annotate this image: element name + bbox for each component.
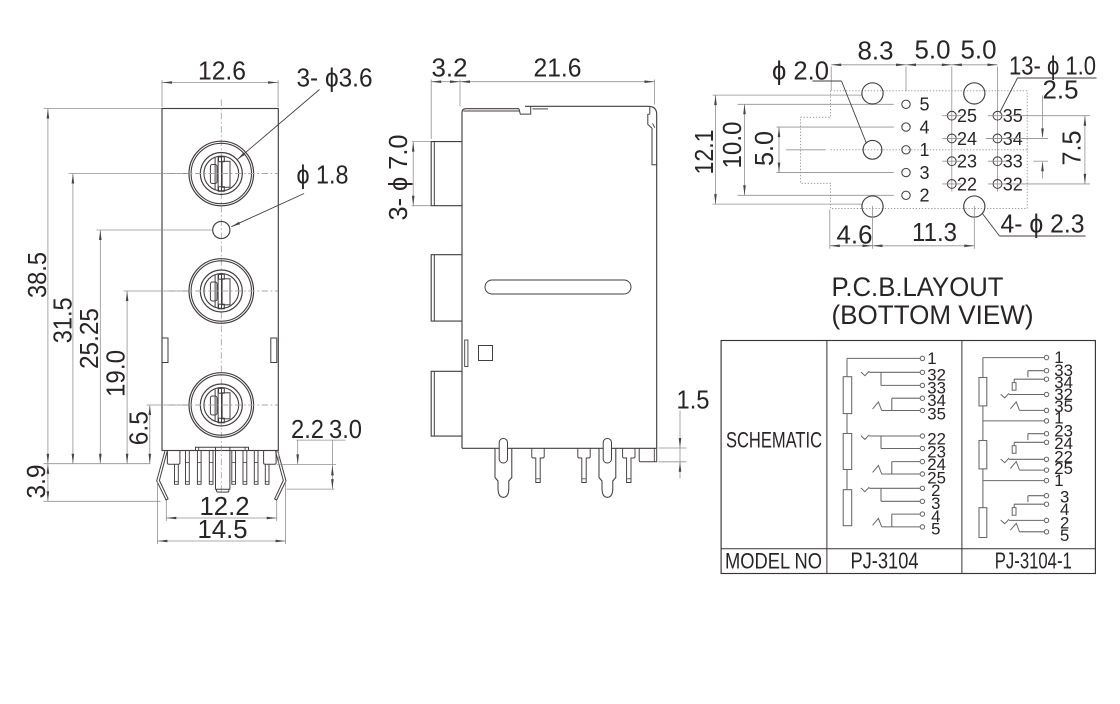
svg-text:25: 25 <box>957 106 977 126</box>
schematic1 terminal 5 <box>920 525 924 529</box>
schematic1 wire contact a <box>869 435 920 437</box>
jack inner circle <box>204 388 239 423</box>
schematic2 terminal 4 <box>1044 502 1048 506</box>
schematic1 connector a-b <box>880 372 882 385</box>
side bushing 1 (phi 7.0) <box>431 142 461 206</box>
schematic1 terminal 3 <box>920 499 924 503</box>
jack contact center bar <box>218 275 221 309</box>
svg-text:11.3: 11.3 <box>912 217 957 247</box>
schematic1 wire contact c <box>892 461 920 463</box>
jack contact top notch <box>219 274 225 279</box>
schematic1 connector c-d <box>891 462 893 474</box>
corner hole bottom-left (phi 2.3) <box>862 196 883 217</box>
schematic1 terminal 2 <box>920 486 924 490</box>
front right end block pin <box>264 451 277 465</box>
jack inner circle <box>204 274 239 309</box>
schematic2 terminal 23 <box>1044 432 1048 436</box>
svg-text:PJ-3104: PJ-3104 <box>851 548 919 574</box>
dimension 3-phi7.0 side <box>412 141 431 143</box>
dimension 12.2 bottom <box>165 501 167 522</box>
schematic2 make contact (caret) <box>1010 523 1019 531</box>
pcb row 1 center line <box>786 149 826 151</box>
schematic2 connector b to insulator <box>1013 442 1015 445</box>
dimension 1.5 side bottom <box>659 447 687 449</box>
svg-text:PJ-3104-1: PJ-3104-1 <box>995 548 1072 574</box>
svg-text:38.5: 38.5 <box>22 252 52 298</box>
schematic1 resistor body 1 <box>843 377 852 414</box>
schematic2 hanging contact a <box>1027 496 1029 502</box>
schematic2 hanging contact a <box>1027 371 1029 377</box>
svg-text:14.5: 14.5 <box>198 514 248 544</box>
jack contact center bar <box>218 389 221 423</box>
side wide leg 2 <box>599 448 616 497</box>
front right mounting leg <box>275 451 286 500</box>
schematic2 terminal 5 <box>1044 530 1048 534</box>
jack contact top notch <box>219 388 225 393</box>
jack contact right plate <box>222 161 230 187</box>
schematic1 connector c-d <box>891 398 893 410</box>
schematic1 bus wire mid2 <box>846 470 848 490</box>
pad 22 circle with cross <box>947 180 956 189</box>
dimension 11.3 pcb bottom <box>973 206 975 249</box>
dimension 2.2 right bottom <box>297 439 346 441</box>
pad 4 circle <box>902 123 910 131</box>
svg-text:1.5: 1.5 <box>677 385 710 415</box>
svg-text:13- ϕ 1.0: 13- ϕ 1.0 <box>1009 51 1096 81</box>
schematic1 wire contact c <box>892 397 920 399</box>
schematic1 wire contact d <box>882 473 921 475</box>
svg-text:6.5: 6.5 <box>124 411 154 445</box>
pad 32 circle with cross <box>993 180 1002 189</box>
jack contact top notch <box>219 157 225 162</box>
schematic2 wire terminal 1 bottom <box>983 480 1044 482</box>
jack contact left line <box>214 389 216 421</box>
front thin pin 2 <box>197 451 201 485</box>
side view small square hole <box>479 346 493 361</box>
pcb bottom edge extension line <box>713 203 862 205</box>
front view vertical centerline <box>220 100 222 495</box>
schematic1 resistor body 2 <box>843 434 852 470</box>
schematic1 terminal 25 <box>920 472 924 476</box>
schematic2 insulator <box>1012 446 1016 454</box>
jack contact left strip <box>210 396 217 415</box>
schematic1 wire contact d <box>882 410 921 412</box>
side view right fold hook <box>648 107 657 165</box>
pad 2 circle <box>902 191 910 199</box>
schematic1 wire contact b <box>881 448 920 450</box>
schematic2 make contact (caret) <box>1010 462 1019 470</box>
svg-text:23: 23 <box>957 152 977 172</box>
svg-text:33: 33 <box>1003 152 1023 172</box>
schematic2 terminal 35 <box>1044 408 1048 412</box>
pad 33 circle with cross <box>993 157 1002 166</box>
schematic1 terminal 32 <box>920 370 924 374</box>
jack ring circle <box>200 153 242 195</box>
front thin pin 5 <box>243 451 247 485</box>
svg-text:4.6: 4.6 <box>837 219 873 249</box>
schematic1 break contact (check) <box>861 371 869 376</box>
side thin pin A <box>532 448 544 482</box>
svg-text:5: 5 <box>931 520 940 539</box>
svg-text:5.0: 5.0 <box>915 35 951 65</box>
pcb row 3 extension line <box>777 172 894 174</box>
schematic1 connector a-b <box>880 488 882 501</box>
schematic2 resistor body 2 <box>979 441 987 469</box>
schematic2 wire contact b <box>1014 441 1044 443</box>
schematic2 hanging contact a <box>1027 434 1029 440</box>
dimension 2.5 pcb right <box>1042 96 1044 137</box>
side view main top edge <box>525 106 657 448</box>
pcb row 4 extension line <box>777 126 894 128</box>
pad 24 circle with cross <box>947 134 956 143</box>
side thin pin C <box>623 448 635 482</box>
schematic2 terminal 1 <box>1044 355 1048 359</box>
schematic2 terminal 34 <box>1044 377 1048 381</box>
pad 3 circle <box>902 168 910 176</box>
schematic1 wire contact d <box>882 526 921 528</box>
dimension 25.25 left <box>97 229 213 231</box>
svg-text:5.0: 5.0 <box>961 35 997 65</box>
jack contact left strip <box>210 165 217 184</box>
front right edge extension line <box>278 452 280 465</box>
schematic1 break contact (check) <box>861 435 869 440</box>
side bushing 3 <box>431 371 461 436</box>
svg-text:4: 4 <box>920 117 930 137</box>
dimension 12.1 pcb left <box>715 95 717 204</box>
schematic1 terminal 34 <box>920 396 924 400</box>
schematic1 terminal 33 <box>920 383 924 387</box>
jack outer circle <box>189 141 254 206</box>
svg-text:P.C.B.LAYOUT: P.C.B.LAYOUT <box>832 272 1004 302</box>
jack contact left line <box>214 158 216 190</box>
pad 25 circle with cross <box>947 111 956 120</box>
dimension 31.5 left <box>69 173 189 175</box>
svg-text:3.9: 3.9 <box>21 465 51 499</box>
svg-text:4- ϕ 2.3: 4- ϕ 2.3 <box>1001 209 1085 239</box>
jack contact bottom notch <box>219 187 225 192</box>
schematic1 terminal 23 <box>920 446 924 450</box>
schematic1 terminal 22 <box>920 434 924 438</box>
dimension 38.5 left <box>44 108 162 110</box>
front thin pin 6 <box>254 451 258 485</box>
schematic2 bus wire top <box>982 358 984 378</box>
svg-text:3- ϕ3.6: 3- ϕ3.6 <box>297 63 373 93</box>
schematic2 wire terminal 1 mid <box>983 420 1044 422</box>
schematic2 wire contact b <box>1014 378 1044 380</box>
side view left edge slot <box>465 340 468 367</box>
schematic2 break contact (check) <box>1001 393 1009 398</box>
front bottom plate inner ticks <box>198 447 200 450</box>
jack inner circle <box>204 156 239 191</box>
schematic1 wire contact a <box>869 371 920 373</box>
schematic2 terminal 32 <box>1044 392 1048 396</box>
table row divider <box>721 548 1095 550</box>
pcb top edge extension line <box>713 94 862 96</box>
schematic1 wire terminal 1 <box>847 357 920 359</box>
svg-text:3: 3 <box>920 163 930 183</box>
side thin pin B <box>578 448 590 482</box>
front thin pin 4 <box>232 451 236 485</box>
schematic2 resistor body 1 <box>979 378 987 406</box>
side view top lip right segment <box>533 108 549 110</box>
svg-text:31.5: 31.5 <box>47 297 77 343</box>
jack contact right plate <box>222 279 230 305</box>
front left end block pin <box>167 451 180 465</box>
pcb row 5 extension line <box>738 103 894 105</box>
schematic2 resistor body 3 <box>979 508 987 538</box>
jack shell circle <box>191 261 251 321</box>
dimension 12.6 top width <box>161 80 163 107</box>
schematic2 wire contact a <box>1028 433 1044 435</box>
jack contact left line <box>214 275 216 307</box>
jack contact center bar <box>218 157 221 191</box>
pad 1 circle <box>902 146 910 154</box>
dimension 19.0 left <box>124 290 189 292</box>
dimension 21.6 side top <box>654 80 656 105</box>
svg-text:19.0: 19.0 <box>101 350 131 397</box>
schematic1 connector c-d <box>891 514 893 527</box>
svg-text:24: 24 <box>957 129 977 149</box>
front center pin <box>216 447 230 489</box>
pcb dotted center row line <box>831 149 1028 151</box>
schematic2 terminal 2 <box>1044 518 1048 522</box>
schematic2 break contact (check) <box>1001 458 1009 463</box>
side view right fold notch <box>653 123 655 127</box>
svg-text:2.2: 2.2 <box>291 414 324 444</box>
front bottom plate <box>196 447 249 450</box>
LED hole circle (phi 1.8) <box>213 221 230 238</box>
schematic2 insulator <box>1012 508 1016 516</box>
table outer border <box>721 341 1095 574</box>
jack horizontal centerline <box>169 404 279 406</box>
jack contact bottom notch <box>219 304 225 309</box>
dimension 4.6 pcb bottom <box>829 210 831 249</box>
dimension 6.5 left <box>147 404 189 406</box>
jack outer circle <box>189 259 254 324</box>
svg-text:21.6: 21.6 <box>534 53 582 83</box>
svg-text:5: 5 <box>920 95 930 115</box>
schematic2 break contact (check) <box>1001 519 1009 524</box>
svg-text:7.5: 7.5 <box>1057 131 1087 166</box>
front thin pin 3 <box>209 451 213 485</box>
schematic1 connector a-b <box>880 436 882 449</box>
jack ring circle <box>200 270 242 312</box>
pad 35 circle with cross <box>993 111 1002 120</box>
schematic2 wire contact b <box>1014 503 1044 505</box>
schematic2 make contact (caret) <box>1010 402 1019 410</box>
schematic2 wire contact d <box>1020 531 1045 533</box>
jack shell circle <box>191 143 251 203</box>
schematic1 wire contact c <box>892 513 920 515</box>
jack horizontal centerline <box>169 290 279 292</box>
dimension 5.0 pcb left <box>778 127 780 173</box>
svg-text:10.0: 10.0 <box>717 122 747 169</box>
dimension 8.3 pcb top <box>830 67 832 91</box>
schematic2 bus wire mid2 <box>982 469 984 508</box>
schematic2 wire contact a <box>1028 495 1044 497</box>
schematic1 terminal 4 <box>920 512 924 516</box>
jack shell circle <box>191 375 251 435</box>
front view right side tab <box>271 338 277 363</box>
schematic1 resistor body 3 <box>843 490 852 526</box>
svg-text:8.3: 8.3 <box>858 36 894 66</box>
front view left side tab <box>162 338 168 363</box>
svg-text:3.0: 3.0 <box>329 414 362 444</box>
svg-text:5.0: 5.0 <box>749 131 779 166</box>
schematic2 terminal 33 <box>1044 369 1048 373</box>
jack outer circle <box>189 373 254 438</box>
corner hole bottom-right (phi 2.3) <box>964 196 985 217</box>
svg-text:3.2: 3.2 <box>432 53 468 83</box>
schematic2 connector b to insulator <box>1013 504 1015 507</box>
dimension 3.2 side top <box>430 80 432 140</box>
schematic2 insulator <box>1012 383 1016 391</box>
schematic1 wire contact a <box>869 487 920 489</box>
jack ring circle <box>200 384 242 426</box>
jack contact bottom notch <box>219 418 225 423</box>
svg-text:5: 5 <box>1060 526 1069 545</box>
schematic2 wire contact c <box>1009 458 1044 460</box>
table column divider 2 <box>961 341 963 574</box>
side view slot <box>485 280 631 294</box>
dimension 10.0 pcb left <box>744 104 746 195</box>
schematic1 make contact (caret) <box>873 466 882 474</box>
dimension 3.0 right bottom <box>331 440 333 489</box>
svg-text:SCHEMATIC: SCHEMATIC <box>726 428 822 453</box>
schematic1 make contact (caret) <box>873 518 882 526</box>
corner hole top-right (phi 2.3) <box>964 83 985 104</box>
pad 23 circle with cross <box>947 157 956 166</box>
jack contact right plate <box>222 393 230 419</box>
svg-text:MODEL NO: MODEL NO <box>725 549 822 574</box>
svg-text:2: 2 <box>920 186 930 206</box>
schematic1 terminal 35 <box>920 408 924 412</box>
schematic2 wire contact c <box>1009 394 1044 396</box>
svg-text:ϕ 1.8: ϕ 1.8 <box>297 160 349 190</box>
schematic2 wire contact a <box>1028 370 1044 372</box>
jack horizontal centerline <box>169 173 279 175</box>
schematic1 terminal 1 <box>920 356 924 360</box>
front thin pin 1 <box>186 451 190 485</box>
schematic1 bus wire top <box>846 358 848 376</box>
dimension 3.9 left bottom <box>44 500 161 502</box>
schematic2 terminal 3 <box>1044 494 1048 498</box>
schematic2 terminal 25 <box>1044 468 1048 472</box>
pcb row 2 extension line <box>738 194 894 196</box>
schematic1 terminal 24 <box>920 459 924 463</box>
dimension 7.5 pcb right <box>1010 115 1090 117</box>
side right foot <box>639 448 657 462</box>
schematic1 break contact (check) <box>861 487 869 492</box>
svg-text:25.25: 25.25 <box>74 308 104 369</box>
side view top lip inner line <box>463 110 519 112</box>
pad 5 circle <box>902 100 910 108</box>
corner hole top-left (phi 2.3) <box>862 83 883 104</box>
pcb dotted outline <box>801 91 1028 209</box>
schematic2 wire contact d <box>1020 469 1045 471</box>
table column divider 1 <box>826 341 828 574</box>
svg-text:22: 22 <box>957 174 977 194</box>
schematic1 wire contact b <box>881 384 920 386</box>
side view bottom edge <box>462 447 657 449</box>
front view body outline <box>162 109 278 451</box>
svg-text:12.6: 12.6 <box>198 56 246 86</box>
pad 34 circle with cross <box>993 134 1002 143</box>
svg-text:(BOTTOM VIEW): (BOTTOM VIEW) <box>832 300 1034 330</box>
schematic2 wire contact d <box>1020 409 1045 411</box>
side view top notch <box>519 107 531 115</box>
schematic2 terminal 24 <box>1044 440 1048 444</box>
schematic2 terminal 1 <box>1044 419 1048 423</box>
schematic1 wire contact b <box>881 500 920 502</box>
svg-text:35: 35 <box>927 405 946 424</box>
svg-text:1: 1 <box>920 140 930 160</box>
dimension 14.5 bottom <box>156 482 158 545</box>
seat plane extension line <box>44 463 151 465</box>
svg-text:3- ϕ 7.0: 3- ϕ 7.0 <box>383 135 413 221</box>
dimension 5.0 pcb top first <box>906 64 952 66</box>
pcb column 3 centerline <box>997 67 999 192</box>
schematic1 bus wire mid1 <box>846 414 848 434</box>
schematic2 wire contact c <box>1009 519 1044 521</box>
center hole (phi 2.0) <box>863 140 882 159</box>
side bushing 2 <box>431 255 461 321</box>
schematic2 terminal 22 <box>1044 457 1048 461</box>
dimension 5.0 pcb top second <box>952 64 998 66</box>
schematic1 make contact (caret) <box>873 402 882 410</box>
schematic2 connector b to insulator <box>1013 379 1015 382</box>
pcb column 1 centerline <box>905 67 907 92</box>
schematic2 bus wire mid1 <box>982 406 984 441</box>
schematic2 wire terminal 1 top <box>983 357 1044 359</box>
svg-text:12.1: 12.1 <box>689 130 719 175</box>
front left mounting leg <box>157 451 168 500</box>
side wide leg 1 <box>495 448 512 497</box>
pcb column 2 centerline <box>951 67 953 192</box>
side view body outline <box>462 109 519 449</box>
schematic2 terminal 1 <box>1044 478 1048 482</box>
jack contact left strip <box>210 282 217 301</box>
